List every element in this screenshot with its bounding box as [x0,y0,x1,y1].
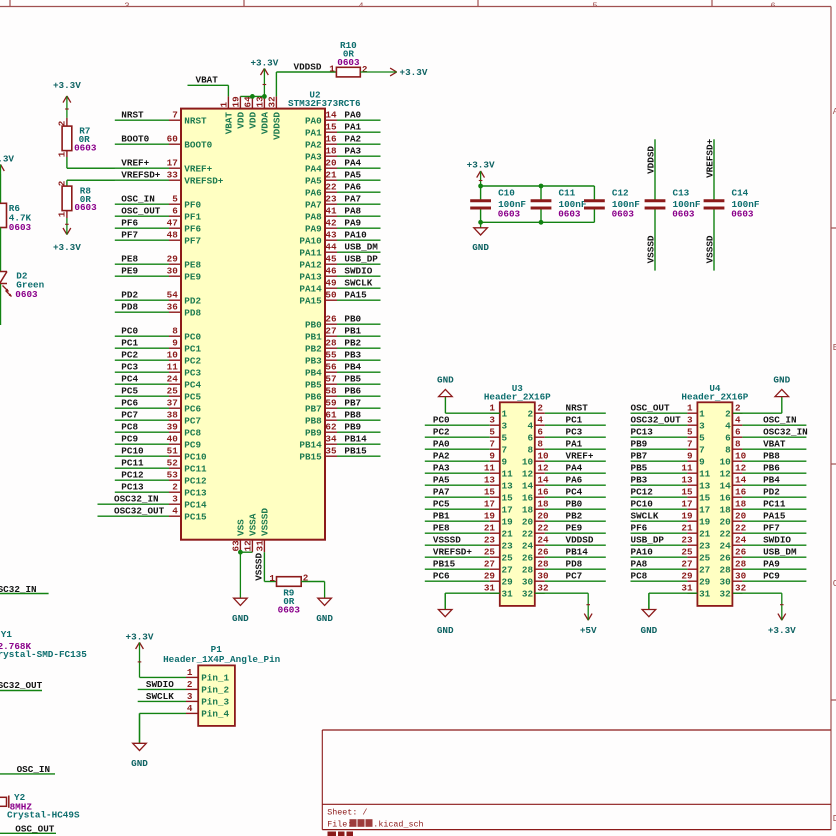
U2 pin 49 PA14 wire+label SWCLK [299,278,380,295]
wire D2 down [0,284,2,325]
label VREFSD+ vertical C14 [704,138,715,177]
svg-text:PB0: PB0 [344,314,361,325]
title block [322,730,831,830]
capacitor C12 [584,186,640,222]
svg-text:32: 32 [522,588,534,599]
svg-text:VDDSD: VDDSD [566,535,594,546]
label VSSSD vertical C13 [645,235,656,263]
svg-text:PB9: PB9 [305,427,322,438]
U2 pin 47 PF6 wire+label PF6 [115,218,202,235]
U3 pin 13 left PA5 [425,475,513,492]
svg-text:14: 14 [735,475,747,486]
junction VDD pin64 [250,94,255,99]
svg-text:31: 31 [699,588,711,599]
U4 pin 18 right PC11 [720,499,807,516]
svg-text:PB15: PB15 [344,446,367,457]
svg-text:3: 3 [489,415,495,426]
svg-text:1: 1 [187,667,193,678]
U4 pin 21 left PF6 [631,523,711,540]
wire U3 pin1 to top gnd [445,397,499,414]
svg-text:VREF+: VREF+ [121,158,149,169]
svg-text:1: 1 [57,211,68,217]
svg-text:21: 21 [699,528,711,539]
svg-text:8: 8 [528,444,534,455]
svg-text:Sheet: /: Sheet: / [327,808,367,818]
svg-text:13: 13 [681,475,693,486]
wire P1 pin4 to gnd [140,713,187,743]
U3 pin 11 left PA3 [425,463,513,480]
svg-text:4: 4 [725,420,731,431]
wire capacitor top rail [481,185,595,187]
svg-text:29: 29 [681,571,693,582]
svg-text:Header_2X16P: Header_2X16P [484,391,551,402]
U2 pin 38 PC7 wire+label PC7 [115,410,201,427]
U4 pin 4 right OSC_IN [725,415,806,432]
svg-text:VDDA: VDDA [260,112,271,135]
wire U4 pin2 to top gnd [733,397,782,414]
P1 reference [211,644,223,655]
label OSC32_OUT left edge [0,680,43,691]
U2 pin 39 PC8 wire+label PC8 [115,422,202,439]
svg-text:PC4: PC4 [121,374,138,385]
svg-text:1: 1 [699,408,705,419]
svg-text:PA15: PA15 [344,290,367,301]
svg-text:C11: C11 [559,187,576,198]
capacitor C14 on VREFSD+/VSSSD [704,139,760,270]
svg-text:14: 14 [720,480,732,491]
svg-text:29: 29 [699,576,711,587]
svg-text:28: 28 [537,559,549,570]
svg-text:OSC_IN: OSC_IN [17,764,50,775]
svg-text:0603: 0603 [74,142,97,153]
U4 pin 32 right wire [720,583,747,600]
svg-text:19: 19 [230,96,241,108]
svg-text:6: 6 [528,432,534,443]
svg-text:PB2: PB2 [305,343,322,354]
svg-text:17: 17 [167,158,178,169]
svg-text:15: 15 [681,487,693,498]
svg-text:PC4: PC4 [566,487,583,498]
U4 pin 19 left SWCLK [631,511,711,528]
svg-text:VREF+: VREF+ [566,451,594,462]
title block clipped title row [328,832,354,836]
ground U3 bottom [437,593,454,636]
svg-text:PA11: PA11 [299,247,322,258]
ground below P1 [131,713,148,768]
svg-text:PC13: PC13 [184,487,207,498]
svg-text:PC11: PC11 [121,458,144,469]
svg-text:4: 4 [187,703,193,714]
U3 pin 15 left PA7 [425,487,513,504]
power +3.3V below U4 [768,593,796,636]
svg-text:27: 27 [484,559,495,570]
svg-text:23: 23 [325,194,337,205]
svg-text:PC7: PC7 [184,415,201,426]
U2 pin 16 PA2 wire+label PA2 [305,134,381,151]
svg-text:+5V: +5V [580,625,597,636]
U2 pin 62 PB9 wire+label PB9 [305,422,381,439]
svg-text:30: 30 [735,571,747,582]
wire U4 pin31 down [649,593,698,609]
svg-text:PC15: PC15 [184,511,207,522]
crystal Y2 [0,792,80,820]
P1 pin 1 Pin_1 [186,667,230,684]
svg-text:12: 12 [522,468,534,479]
svg-text:PF6: PF6 [631,523,648,534]
svg-text:7: 7 [687,439,693,450]
label SWCLK [146,691,174,702]
svg-text:10: 10 [735,451,747,462]
svg-text:PA6: PA6 [566,475,583,486]
U3 pin 28 right PD8 [522,559,606,576]
svg-text:24: 24 [735,535,747,546]
svg-text:30: 30 [720,576,732,587]
svg-text:GND: GND [316,613,333,624]
resistor R6 [0,203,32,233]
svg-text:PB15: PB15 [299,451,322,462]
svg-text:OSC32_OUT: OSC32_OUT [631,415,682,426]
svg-text:3: 3 [699,420,705,431]
svg-text:VREFSD+: VREFSD+ [184,175,223,186]
U3 pin 6 right PC3 [528,427,606,444]
svg-text:33: 33 [167,170,179,181]
svg-text:+3.3V: +3.3V [250,57,278,68]
U2 pin 54 PD2 wire+label PD2 [115,290,202,307]
svg-text:PC12: PC12 [184,475,207,486]
svg-text:SWDIO: SWDIO [763,535,791,546]
label VDDSD vertical C13 [645,146,656,174]
svg-text:PA12: PA12 [299,259,322,270]
U2 pin 24 PC4 wire+label PC4 [115,374,202,391]
svg-text:PC10: PC10 [121,446,144,457]
svg-text:SWDIO: SWDIO [146,679,174,690]
svg-text:52: 52 [167,458,179,469]
svg-text:11: 11 [681,463,693,474]
svg-text:0603: 0603 [731,209,754,220]
wire SWDIO [138,688,186,690]
U4 pin 22 right PF7 [720,523,807,540]
label OSC32_IN left edge [0,584,49,595]
svg-text:Pin_2: Pin_2 [201,685,229,696]
svg-text:44: 44 [325,242,337,253]
svg-text:22: 22 [325,182,337,193]
svg-text:PB2: PB2 [566,511,583,522]
U2 pin 9 PC1 wire+label PC1 [115,338,202,355]
svg-text:24: 24 [537,535,549,546]
svg-text:SWCLK: SWCLK [631,511,659,522]
svg-text:PC7: PC7 [121,410,138,421]
svg-text:PA10: PA10 [631,547,654,558]
svg-text:PC1: PC1 [121,338,138,349]
U3 pin 22 right PE9 [522,523,606,540]
svg-text:OSC_IN: OSC_IN [121,194,154,205]
svg-text:SWCLK: SWCLK [146,691,174,702]
svg-text:9: 9 [172,338,178,349]
svg-text:PB9: PB9 [631,439,648,450]
svg-text:Y1: Y1 [1,629,13,640]
svg-text:10: 10 [537,451,549,462]
svg-text:5: 5 [687,427,693,438]
U2 pin 26 PB0 wire+label PB0 [305,314,381,331]
svg-text:PA5: PA5 [344,170,361,181]
svg-text:31: 31 [254,540,265,552]
svg-text:16: 16 [325,134,337,145]
U3 pin 1 left wire [489,403,507,420]
U3 pin 31 left wire [484,583,513,600]
svg-text:19: 19 [502,516,514,527]
svg-text:PB6: PB6 [344,386,361,397]
U3 pin 26 right PB14 [522,547,606,564]
svg-text:51: 51 [167,446,179,457]
svg-text:PC4: PC4 [184,379,201,390]
svg-text:PA2: PA2 [433,451,450,462]
svg-text:PA13: PA13 [299,271,322,282]
svg-text:39: 39 [167,422,179,433]
svg-text:28: 28 [735,559,747,570]
U3 pin 20 right PB2 [522,511,606,528]
svg-text:USB_DM: USB_DM [763,547,797,558]
svg-text:PA10: PA10 [344,230,367,241]
svg-text:17: 17 [502,504,513,515]
U4 pin 31 left wire [681,583,710,600]
U4 pin 6 right OSC32_IN [725,427,808,444]
svg-text:PD8: PD8 [184,307,201,318]
U2 pin 55 PB3 wire+label PB3 [305,350,381,367]
wire U4 pin32 down [733,592,782,594]
svg-text:OSC_IN: OSC_IN [763,415,796,426]
svg-text:File:: File: [327,820,352,830]
svg-text:PA7: PA7 [433,487,450,498]
svg-text:42: 42 [325,218,337,229]
crystal Y1 labels [0,629,87,660]
svg-text:13: 13 [699,480,711,491]
U2 pin 59 PB7 wire+label PB7 [305,398,381,415]
svg-text:10: 10 [522,456,534,467]
svg-text:0603: 0603 [337,57,360,68]
svg-text:27: 27 [681,559,692,570]
svg-text:PB8: PB8 [305,415,322,426]
U2 top pin 19 VDD [230,96,246,129]
svg-text:PC10: PC10 [631,499,654,510]
svg-text:32: 32 [266,96,277,108]
U4 pin 30 right PC9 [720,571,807,588]
svg-text:PB1: PB1 [433,511,450,522]
svg-text:22: 22 [720,528,732,539]
svg-text:27: 27 [502,564,513,575]
connector P1 body [198,665,235,726]
svg-text:PA0: PA0 [305,115,322,126]
svg-text:PC2: PC2 [433,427,450,438]
svg-text:0603: 0603 [9,222,32,233]
U4 pin 9 left PB7 [631,451,706,468]
U4 pin 23 left USB_DP [631,535,711,552]
svg-text:PA0: PA0 [344,110,361,121]
svg-text:NRST: NRST [184,115,207,126]
svg-text:PF7: PF7 [184,235,201,246]
svg-text:23: 23 [484,535,496,546]
svg-text:PC10: PC10 [184,451,207,462]
svg-text:+3.3V: +3.3V [126,632,154,643]
svg-text:PA1: PA1 [305,127,322,138]
svg-text:16: 16 [720,492,732,503]
svg-text:21: 21 [681,523,693,534]
svg-text:PF7: PF7 [121,230,138,241]
svg-text:GND: GND [437,374,454,385]
U2 pin 58 PB6 wire+label PB6 [305,386,381,403]
U4 pin 1 left OSC_OUT [631,403,706,420]
svg-text:37: 37 [167,398,178,409]
svg-text:26: 26 [325,314,337,325]
svg-text:PC12: PC12 [121,470,144,481]
svg-text:PC9: PC9 [763,571,780,582]
svg-text:27: 27 [325,326,336,337]
svg-text:PA15: PA15 [299,295,322,306]
svg-text:18: 18 [720,504,732,515]
U3 pin 19 left PB1 [425,511,513,528]
svg-text:2: 2 [725,408,731,419]
svg-text:OSC32_IN: OSC32_IN [763,427,808,438]
svg-text:Header_2X16P: Header_2X16P [681,391,748,402]
svg-text:VDD: VDD [236,112,247,129]
U4 pin 29 left PC8 [631,571,711,588]
svg-text:2: 2 [57,180,68,186]
svg-text:25: 25 [167,386,179,397]
svg-text:30: 30 [167,266,179,277]
svg-text:12: 12 [720,468,732,479]
svg-text:5: 5 [172,194,178,205]
U4 pin 14 right PB4 [720,475,807,492]
svg-text:VSSSD: VSSSD [645,235,656,263]
svg-text:60: 60 [167,134,179,145]
svg-text:PB8: PB8 [344,410,361,421]
svg-text:29: 29 [167,254,179,265]
svg-text:PC5: PC5 [433,499,450,510]
svg-text:PC14: PC14 [184,499,207,510]
svg-text:31: 31 [681,583,693,594]
svg-text:PE9: PE9 [566,523,583,534]
svg-text:14: 14 [522,480,534,491]
U2 pin 43 PA10 wire+label PA10 [299,230,380,247]
wire VSSSD down [264,552,276,581]
wire SWCLK [138,700,186,702]
svg-text:1: 1 [502,408,508,419]
svg-text:PA2: PA2 [344,134,361,145]
svg-text:20: 20 [522,516,534,527]
U2 pin 23 PA7 wire+label PA7 [305,194,381,211]
svg-text:PE8: PE8 [184,259,201,270]
svg-text:17: 17 [699,504,710,515]
label VBAT [196,75,219,86]
svg-text:28: 28 [522,564,534,575]
svg-text:20: 20 [537,511,549,522]
svg-text:VSSA: VSSA [248,513,259,536]
ground U4 top [773,374,790,396]
junction top rail C10 [478,184,483,189]
svg-text:PA7: PA7 [305,199,322,210]
U2 pin 41 PA8 wire+label PA8 [305,206,381,223]
svg-text:21: 21 [502,528,514,539]
U3 pin 32 right wire [522,583,549,600]
svg-text:6: 6 [172,206,178,217]
U2 pin 42 PA9 wire+label PA9 [305,218,381,235]
svg-text:PC13: PC13 [121,482,144,493]
U2 bottom pin 31 VSSSD [254,508,270,553]
svg-text:0603: 0603 [498,209,521,220]
U4 value Header_2X16P [681,391,748,402]
svg-text:PA7: PA7 [344,194,361,205]
U2 pin 22 PA6 wire+label PA6 [305,182,381,199]
svg-text:0603: 0603 [15,289,38,300]
svg-text:PC0: PC0 [121,326,138,337]
wire R9 to ground [301,581,324,583]
svg-text:PB14: PB14 [344,434,367,445]
svg-text:5: 5 [489,427,495,438]
svg-text:29: 29 [484,571,496,582]
U3 pin 16 right PC4 [522,487,606,504]
svg-text:1: 1 [218,102,229,108]
power +3.3V above P1 [126,632,154,678]
svg-text:Header_1X4P_Angle_Pin: Header_1X4P_Angle_Pin [163,654,281,665]
wire VDDSD vertical [276,72,336,96]
U2 pin 4 PC15 wire+label OSC32_OUT [98,506,208,523]
U4 pin 15 left PC12 [631,487,711,504]
capacitor C10 [470,186,526,222]
svg-text:PA10: PA10 [299,235,322,246]
svg-text:24: 24 [167,374,179,385]
svg-text:GND: GND [472,242,489,253]
U4 pin 8 right VBAT [725,439,806,456]
wire VBAT net [188,85,229,96]
svg-text:25: 25 [699,552,711,563]
svg-text:PF6: PF6 [184,223,201,234]
svg-text:OSC_OUT: OSC_OUT [631,403,670,414]
svg-text:2: 2 [735,403,741,414]
U2 bottom pin 63 VSS [230,519,246,552]
svg-text:USB_DM: USB_DM [344,242,378,253]
svg-text:19: 19 [484,511,496,522]
svg-text:VBAT: VBAT [224,112,235,135]
svg-text:25: 25 [502,552,514,563]
U2 pin 46 PA13 wire+label SWDIO [299,266,380,283]
svg-text:21: 21 [484,523,496,534]
svg-text:VSS: VSS [236,519,247,536]
svg-text:18: 18 [522,504,534,515]
svg-text:50: 50 [325,290,337,301]
svg-text:VREFSD+: VREFSD+ [433,547,472,558]
P1 pin 2 Pin_2 [186,679,230,696]
svg-text:23: 23 [502,540,514,551]
U2 pin 30 PE9 wire+label PE9 [115,266,202,283]
svg-text:6: 6 [725,432,731,443]
svg-text:9: 9 [687,451,693,462]
svg-text:15: 15 [325,122,337,133]
resistor R7 [57,118,97,157]
svg-text:14: 14 [325,110,337,121]
svg-text:1: 1 [329,63,335,74]
svg-text:GND: GND [641,625,658,636]
U3 reference [512,383,524,394]
svg-text:61: 61 [325,410,337,421]
U4 pin 10 right PB8 [720,451,807,468]
svg-text:12: 12 [242,540,253,552]
svg-text:4: 4 [537,415,543,426]
ground below C10 [472,222,489,253]
svg-text:4: 4 [735,415,741,426]
svg-text:7: 7 [699,444,705,455]
svg-text:GND: GND [232,613,249,624]
svg-text:USB_DP: USB_DP [344,254,378,265]
svg-text:2: 2 [528,408,534,419]
